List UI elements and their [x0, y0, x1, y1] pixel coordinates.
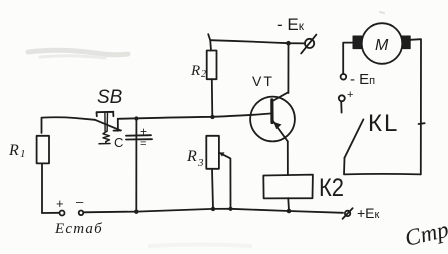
svg-text:+: +: [347, 89, 353, 101]
terminal Estab +: [60, 211, 65, 216]
svg-text:R: R: [8, 142, 19, 159]
wire: switch to transistor base (junctions at C and R2): [118, 114, 271, 119]
svg-text:КL: КL: [368, 110, 399, 137]
spring: [99, 132, 110, 144]
wire: R1 top corner to switch: [42, 117, 96, 133]
svg-text:3: 3: [197, 157, 204, 169]
bottom rail: [42, 212, 60, 214]
wire: R2 bottom lead: [211, 79, 214, 117]
terminal +Ek: [345, 211, 350, 216]
resistor R3 (with wiper arrow): [206, 136, 219, 169]
resistor R2: [207, 51, 217, 80]
svg-text:=: =: [140, 138, 146, 150]
terminal Estab -: [79, 211, 84, 216]
wire: emitter to relay K2: [287, 141, 289, 175]
terminal + (KL fixed contact): [339, 95, 345, 101]
terminal -Ep: [341, 74, 347, 80]
transistor VT: [250, 97, 295, 142]
svg-text:SB: SB: [97, 87, 123, 108]
svg-text:+: +: [140, 125, 147, 139]
wire: R2 top lead: [208, 34, 211, 50]
svg-text:+: +: [56, 196, 64, 211]
wire: collector rail: [287, 43, 289, 93]
svg-text:–: –: [76, 194, 84, 209]
wire: K2 bottom lead: [287, 198, 290, 211]
moving blade: [95, 120, 121, 131]
stray tick on right wire: [419, 122, 425, 125]
svg-text:Естаб: Естаб: [54, 221, 103, 237]
switch SB: [95, 112, 121, 144]
svg-text:M: M: [375, 37, 389, 54]
resistor R1: [37, 136, 49, 164]
plunger top bar: [97, 112, 114, 116]
wire: R1 bottom lead: [41, 164, 43, 214]
R3 arrowhead: [219, 152, 225, 156]
plunger stem (double stroke): [105, 112, 108, 131]
relay coil K2: [263, 175, 313, 199]
svg-text:1: 1: [20, 148, 26, 160]
svg-text:К2: К2: [319, 174, 344, 202]
KL contact blade: [345, 119, 364, 157]
wire: KL bottom: [344, 158, 421, 175]
wire: left brush to -Ep terminal: [343, 43, 353, 74]
wire: R3 bottom lead: [212, 169, 213, 209]
svg-text:R: R: [186, 148, 197, 165]
svg-text:R: R: [190, 63, 200, 79]
wire: right brush to KL loop: [410, 39, 421, 174]
right contact: [114, 119, 122, 131]
svg-text:C: C: [114, 135, 123, 150]
faint scan smudges: [28, 12, 384, 246]
motor M: [362, 23, 403, 64]
motor brushes: [353, 36, 410, 49]
terminal -Ek: [305, 39, 314, 48]
svg-text:2: 2: [201, 69, 206, 80]
junction dots: [134, 41, 291, 214]
capacitor C lead (top to bottom rail): [135, 119, 137, 212]
svg-text:VT: VT: [252, 73, 274, 89]
wire: top rail to -Ek terminal: [210, 40, 305, 43]
capacitor C plates: [126, 135, 152, 139]
VT emitter arrowhead: [273, 122, 281, 130]
